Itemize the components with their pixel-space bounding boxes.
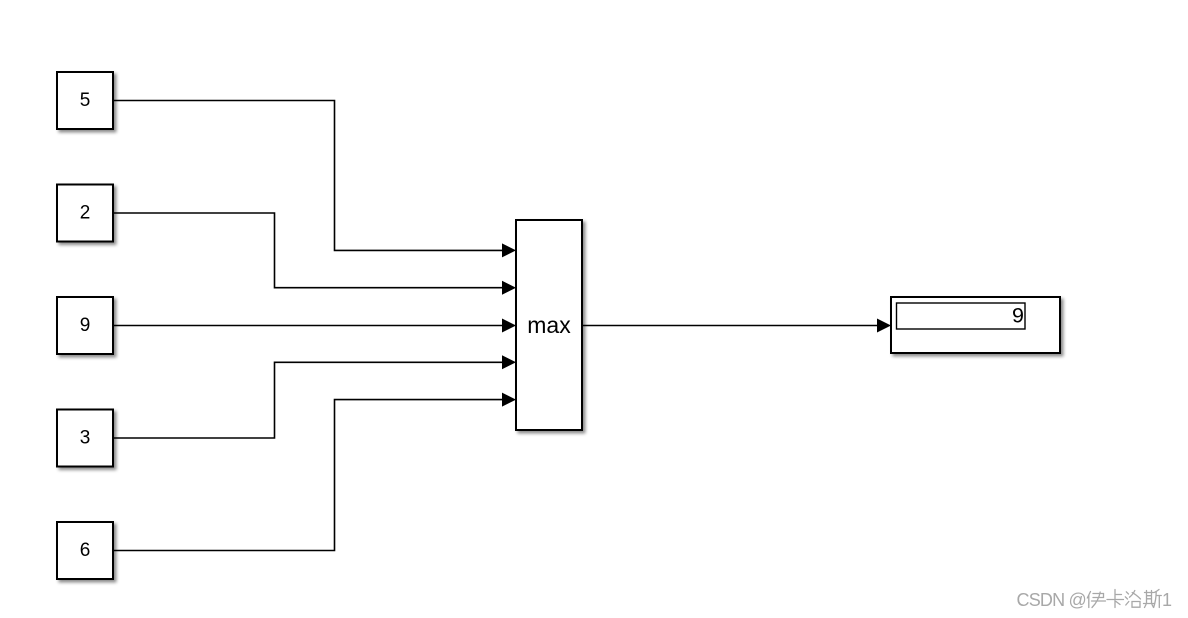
constant block Constant4 (value 6): [57, 522, 113, 579]
arrowhead at max input 4: [502, 355, 516, 369]
wire from Constant2 9 to max input 3: [113, 325, 503, 327]
MinMax block (max): [516, 220, 582, 430]
constant block Constant (value 5): [57, 72, 113, 129]
wire from Constant3 3 to max input 4: [113, 362, 503, 438]
svg-text:1: 1: [1162, 590, 1172, 610]
wire from Constant1 2 to max input 2: [113, 213, 503, 288]
arrowhead at max input 5: [502, 393, 516, 407]
arrowhead at max input 1: [502, 243, 516, 257]
svg-text:6: 6: [80, 540, 91, 561]
svg-text:9: 9: [80, 315, 91, 336]
svg-text:2: 2: [80, 203, 91, 224]
wire from max output to Display: [582, 325, 878, 327]
arrowhead at max input 2: [502, 281, 516, 295]
svg-text:5: 5: [80, 90, 91, 111]
arrowhead at Display input: [877, 319, 891, 333]
svg-text:CSDN @: CSDN @: [1017, 590, 1086, 610]
constant block Constant3 (value 3): [57, 410, 113, 467]
arrowhead at max input 3: [502, 319, 516, 333]
watermark glyph 斯: [1144, 590, 1162, 608]
constant block Constant1 (value 2): [57, 185, 113, 242]
watermark glyph 卡: [1107, 590, 1124, 608]
svg-text:max: max: [527, 312, 571, 338]
watermark glyph 洛: [1125, 591, 1140, 608]
constant block Constant2 (value 9): [57, 297, 113, 354]
wire from Constant4 6 to max input 5: [113, 400, 503, 551]
wire from Constant 5 to max input 1: [113, 101, 503, 251]
Display block (shows 9): [891, 297, 1060, 353]
watermark glyph 伊: [1087, 592, 1105, 608]
watermark CSDN @伊卡洛斯1: [1017, 590, 1173, 611]
svg-text:3: 3: [80, 428, 91, 449]
svg-text:9: 9: [1012, 304, 1024, 328]
